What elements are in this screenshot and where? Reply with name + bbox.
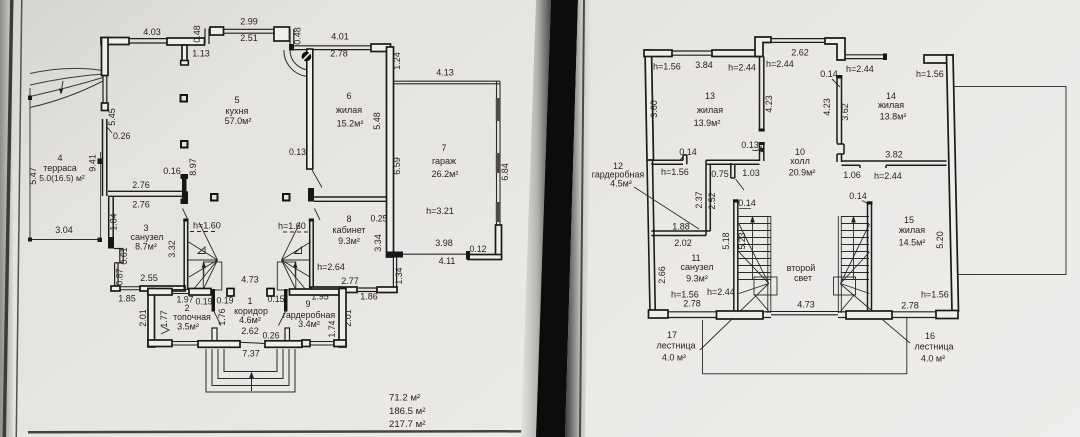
top right corner (924, 55, 953, 63)
svg-text:15: 15 (904, 215, 914, 225)
dimension 3.04 line (30, 239, 100, 241)
topochnaya door zigzag (161, 326, 169, 334)
svg-text:h=2.44: h=2.44 (728, 63, 756, 73)
svg-text:3.32: 3.32 (167, 240, 177, 258)
svg-text:h=2.44: h=2.44 (874, 171, 902, 181)
top wall mid (712, 50, 760, 57)
svg-text:186.5 м²: 186.5 м² (389, 406, 426, 417)
svg-text:санузел: санузел (131, 232, 164, 242)
kitchen column squares (181, 95, 290, 201)
svg-text:3.82: 3.82 (885, 150, 903, 160)
svg-text:6.84: 6.84 (500, 163, 510, 181)
svg-text:кухня: кухня (226, 106, 249, 116)
svg-text:жилая: жилая (336, 105, 362, 115)
svg-text:20.9м²: 20.9м² (789, 168, 816, 178)
svg-text:0.13: 0.13 (741, 140, 759, 150)
svg-text:0.25: 0.25 (370, 214, 387, 224)
svg-text:7.37: 7.37 (242, 349, 260, 359)
hall right wall (837, 77, 844, 162)
svg-text:4.11: 4.11 (439, 256, 456, 266)
window 3.84 (672, 51, 712, 55)
kabinet door leaf (315, 209, 321, 221)
svg-text:h=3.21: h=3.21 (426, 206, 454, 216)
svg-text:жилая: жилая (697, 105, 723, 115)
svg-text:1.85: 1.85 (118, 294, 136, 304)
svg-text:1: 1 (247, 296, 252, 306)
svg-text:0.19: 0.19 (216, 296, 233, 306)
svg-text:h=1.56: h=1.56 (916, 69, 944, 79)
svg-text:h=1.56: h=1.56 (661, 167, 689, 177)
gap + right page edge (565, 0, 592, 437)
svg-text:0.75: 0.75 (711, 169, 729, 179)
svg-text:1.76: 1.76 (217, 308, 227, 325)
wall 2.76 (108, 191, 184, 196)
left page bottom border line (28, 430, 540, 434)
svg-text:4: 4 (57, 153, 62, 163)
left flank wall (734, 200, 738, 313)
svg-text:9: 9 (305, 299, 310, 309)
svg-text:1.77: 1.77 (159, 310, 169, 327)
svg-text:3.84: 3.84 (695, 60, 713, 70)
svg-text:2.99: 2.99 (240, 17, 258, 27)
wall bump top with 2.99/2.51 window (210, 27, 224, 35)
svg-text:кабинет: кабинет (332, 225, 365, 235)
svg-text:1.74: 1.74 (327, 320, 337, 337)
right outer wall (947, 55, 959, 311)
garage door line (403, 253, 466, 255)
svg-text:2.37: 2.37 (694, 191, 704, 208)
bottom walls with porch (148, 340, 172, 347)
svg-text:2.78: 2.78 (330, 49, 348, 59)
svg-text:4.73: 4.73 (241, 275, 259, 285)
svg-text:2.01: 2.01 (138, 309, 148, 327)
svg-text:2.76: 2.76 (132, 200, 150, 210)
top wall left corner (644, 50, 672, 57)
svg-text:0.87: 0.87 (115, 268, 125, 285)
svg-text:свет: свет (794, 273, 812, 283)
garage right wall solid part (496, 225, 502, 257)
svg-text:1.34: 1.34 (394, 267, 404, 284)
left photo edge gray strip (0, 0, 13, 437)
svg-text:h=2.44: h=2.44 (766, 59, 794, 69)
svg-text:5.0(16.5) м²: 5.0(16.5) м² (39, 173, 85, 183)
svg-text:h=2.64: h=2.64 (317, 262, 345, 272)
svg-text:0.61: 0.61 (119, 247, 129, 264)
svg-text:лестница: лестница (914, 342, 953, 352)
terrace railing arrowhead (59, 89, 63, 95)
svg-text:жилая: жилая (878, 100, 904, 110)
svg-text:1.13: 1.13 (192, 49, 210, 59)
svg-text:4.23: 4.23 (822, 98, 832, 116)
svg-text:0.16: 0.16 (163, 166, 181, 176)
svg-text:71.2 м²: 71.2 м² (389, 393, 421, 404)
svg-text:h=2.44: h=2.44 (846, 64, 874, 74)
svg-text:2.51: 2.51 (240, 33, 258, 43)
svg-text:4.5м²: 4.5м² (610, 179, 632, 189)
svg-text:3.98: 3.98 (435, 238, 453, 248)
middle black band (536, 0, 578, 437)
svg-text:4.13: 4.13 (436, 68, 454, 78)
hall left wall (760, 57, 764, 162)
svg-text:5.48: 5.48 (372, 112, 382, 130)
svg-text:жилая: жилая (899, 225, 925, 235)
svg-text:4.0 м²: 4.0 м² (921, 354, 945, 364)
wall room6 bottom / kabinet top (314, 197, 387, 201)
leader to 16 (841, 284, 911, 343)
svg-text:3.4м²: 3.4м² (298, 319, 320, 329)
bottom wall (649, 310, 669, 318)
right flank wall (868, 202, 872, 313)
wall top-left (4.03 window) (101, 38, 129, 45)
bottom section left outer wall (148, 289, 155, 348)
left page edge dark line (3, 0, 14, 437)
terrace left boundary wire (29, 88, 31, 238)
room 6 left wall (307, 49, 313, 169)
svg-text:0.14: 0.14 (738, 198, 756, 208)
roof outline right (953, 87, 1066, 275)
svg-text:0.12: 0.12 (469, 244, 486, 254)
svg-text:17: 17 (667, 330, 677, 340)
garage top thin wall (394, 81, 501, 84)
svg-text:14.5м²: 14.5м² (899, 238, 926, 248)
svg-text:2.76: 2.76 (132, 180, 150, 190)
svg-text:h=1.56: h=1.56 (921, 290, 949, 300)
window right 0.14 section (845, 55, 884, 59)
svg-text:гараж: гараж (432, 156, 456, 166)
room 6 door leaf (312, 170, 322, 188)
svg-text:13.9м²: 13.9м² (694, 118, 721, 128)
svg-text:2.78: 2.78 (901, 301, 919, 311)
left page border line (16, 0, 23, 437)
sanuzel door leaf (183, 209, 189, 221)
svg-text:0.48: 0.48 (192, 25, 202, 43)
svg-text:217.7 м²: 217.7 м² (389, 419, 426, 430)
topochnaya top wall (148, 289, 172, 296)
svg-text:4.01: 4.01 (331, 32, 349, 42)
svg-text:4.73: 4.73 (797, 300, 815, 310)
1.88 wall (651, 231, 710, 236)
svg-text:2.66: 2.66 (657, 266, 667, 284)
svg-text:3.60: 3.60 (649, 100, 659, 118)
svg-text:4.03: 4.03 (143, 27, 161, 37)
bottom right outer wall (339, 289, 346, 348)
svg-text:15.2м²: 15.2м² (337, 119, 364, 129)
svg-text:26.2м²: 26.2м² (432, 169, 459, 179)
svg-text:2.77: 2.77 (341, 276, 359, 286)
stair right wall (310, 221, 314, 290)
garderobnaya 12 right wall (706, 160, 710, 235)
garage right thin wall with ticks (497, 81, 501, 225)
svg-text:13: 13 (705, 91, 715, 101)
svg-text:5.47: 5.47 (28, 167, 38, 185)
svg-text:0.15: 0.15 (267, 294, 284, 304)
wall top right (4.01 window) (289, 44, 294, 51)
garage bottom-left stub 1.34 (387, 252, 404, 258)
middle shadow before black band (521, 0, 551, 437)
svg-text:9.41: 9.41 (88, 154, 98, 172)
roof outline bottom (703, 318, 907, 374)
svg-text:8.7м²: 8.7м² (135, 242, 157, 252)
svg-text:13.8м²: 13.8м² (880, 112, 907, 122)
svg-text:1.06: 1.06 (843, 170, 861, 180)
garage left wall (387, 47, 394, 257)
right stair (834, 216, 870, 313)
svg-text:0.14: 0.14 (849, 191, 867, 201)
sanuzel left wall jogs 0.61/0.87 (109, 196, 114, 237)
garderobnaya top wall (290, 289, 340, 295)
svg-text:5: 5 (234, 95, 239, 105)
svg-text:1.86: 1.86 (360, 292, 378, 302)
svg-text:2.78: 2.78 (683, 299, 701, 309)
svg-text:топочная: топочная (173, 312, 211, 322)
leader to 17 (700, 284, 769, 351)
wall bump left riser 0.48 (205, 29, 209, 45)
svg-text:3.04: 3.04 (55, 225, 73, 235)
kitchen left wall with terrace window (102, 38, 109, 76)
svg-text:0.26: 0.26 (113, 131, 131, 141)
wall bump right riser 0.48 (290, 29, 294, 44)
svg-text:57.0м²: 57.0м² (225, 116, 252, 126)
svg-text:5.18: 5.18 (721, 232, 731, 249)
svg-text:второй: второй (787, 263, 816, 273)
wall stub 1.13 (182, 45, 187, 62)
porch nested steps (206, 349, 295, 392)
svg-text:0.19: 0.19 (195, 297, 212, 307)
svg-text:1.03: 1.03 (742, 168, 760, 178)
svg-text:6: 6 (346, 91, 351, 101)
svg-text:2.02: 2.02 (674, 238, 692, 248)
svg-text:0.26: 0.26 (262, 331, 279, 341)
svg-text:5.45: 5.45 (107, 108, 117, 126)
svg-text:9.3м²: 9.3м² (338, 236, 360, 246)
sanuzel bottom wall with door (111, 286, 120, 291)
room13 bottom wall (651, 155, 759, 164)
svg-text:h=1.56: h=1.56 (653, 62, 681, 72)
paper background left page (0, 0, 560, 437)
svg-text:4.6м²: 4.6м² (239, 315, 261, 325)
bump right corner (825, 38, 845, 60)
svg-text:8: 8 (346, 214, 351, 224)
svg-text:8.97: 8.97 (188, 158, 198, 176)
left stair (738, 216, 777, 313)
svg-text:1.88: 1.88 (672, 222, 690, 232)
svg-text:2.62: 2.62 (791, 48, 809, 58)
svg-text:16: 16 (925, 331, 935, 341)
room 14/15 wall (842, 161, 947, 168)
bump left corner (755, 37, 771, 57)
svg-text:h=1.60: h=1.60 (278, 221, 306, 231)
niche divider (731, 163, 735, 178)
paper background right page (560, 0, 1080, 437)
svg-text:2.52: 2.52 (707, 192, 717, 209)
left outer wall (645, 50, 654, 160)
svg-text:холл: холл (790, 156, 810, 166)
stair left wall (183, 191, 189, 202)
svg-text:4.0 м²: 4.0 м² (662, 353, 686, 363)
terrace railing arcs (30, 68, 103, 107)
kabinet bottom wall with 1.86 window (311, 287, 357, 293)
svg-text:0.13: 0.13 (289, 147, 306, 157)
svg-text:7: 7 (441, 143, 446, 153)
kitchen door hinge dot overlay (302, 52, 312, 62)
corridor top stubs and blocks (212, 289, 216, 312)
svg-text:0.14: 0.14 (679, 147, 697, 157)
svg-text:3.34: 3.34 (373, 234, 383, 252)
svg-text:терраса: терраса (43, 163, 77, 173)
svg-text:h=1.60: h=1.60 (193, 221, 221, 231)
kitchen door hinge dot (302, 52, 312, 62)
terrace 9.41 dim line and tick (100, 152, 102, 239)
svg-text:4.23: 4.23 (764, 95, 774, 113)
right page edge line (579, 0, 585, 437)
svg-text:h=2.44: h=2.44 (707, 287, 735, 297)
svg-text:0.48: 0.48 (293, 27, 303, 45)
svg-text:2.55: 2.55 (140, 273, 158, 283)
svg-text:0.14: 0.14 (820, 69, 838, 79)
svg-text:санузел: санузел (681, 262, 714, 272)
svg-text:5.20: 5.20 (935, 231, 945, 249)
svg-text:3.5м²: 3.5м² (177, 322, 199, 332)
kitchen door arcs (284, 50, 310, 77)
svg-text:9.3м²: 9.3м² (686, 274, 708, 284)
svg-text:2.62: 2.62 (241, 326, 259, 336)
svg-text:лестница: лестница (656, 341, 695, 351)
bump window 2.62 (771, 39, 825, 43)
